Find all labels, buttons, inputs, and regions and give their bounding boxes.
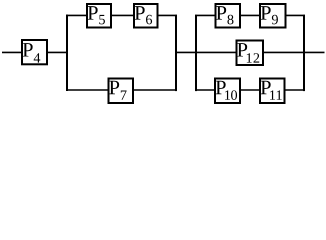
node join 2 (vertical bus)	[303, 15, 305, 91]
wire P9 to join node 2	[286, 14, 306, 16]
block P10	[215, 79, 240, 104]
block P9	[260, 4, 286, 28]
block P8	[216, 4, 241, 28]
wire split 1 to P7	[66, 89, 109, 91]
wire P11 to join node 2	[285, 89, 306, 91]
block P5	[87, 4, 111, 28]
wire split 2 to P8	[195, 14, 217, 16]
wire output right	[303, 51, 325, 53]
block P7	[109, 79, 134, 104]
node split 1 (vertical bus)	[66, 15, 68, 91]
block P4	[22, 40, 47, 64]
block P11	[260, 79, 285, 104]
wire split 1 to P5	[66, 14, 87, 16]
wire split 2 to P10	[195, 89, 216, 91]
wire P7 to join node 1	[133, 89, 177, 91]
wire P10 to P11	[240, 89, 261, 91]
wire P8 to P9	[240, 14, 261, 16]
block P12	[237, 41, 264, 66]
wire input left	[2, 51, 22, 53]
node join 1 (vertical bus)	[175, 15, 177, 91]
node split 2 (vertical bus)	[195, 15, 197, 91]
wire split 2 to P12	[195, 51, 238, 53]
wire join 1 to split 2	[175, 51, 197, 53]
wire P6 to join node 1	[158, 14, 178, 16]
wire P12 to join node 2	[263, 51, 305, 53]
block P6	[134, 4, 158, 28]
wire P4 to split node 1	[47, 51, 68, 53]
wire P5 to P6	[111, 14, 134, 16]
